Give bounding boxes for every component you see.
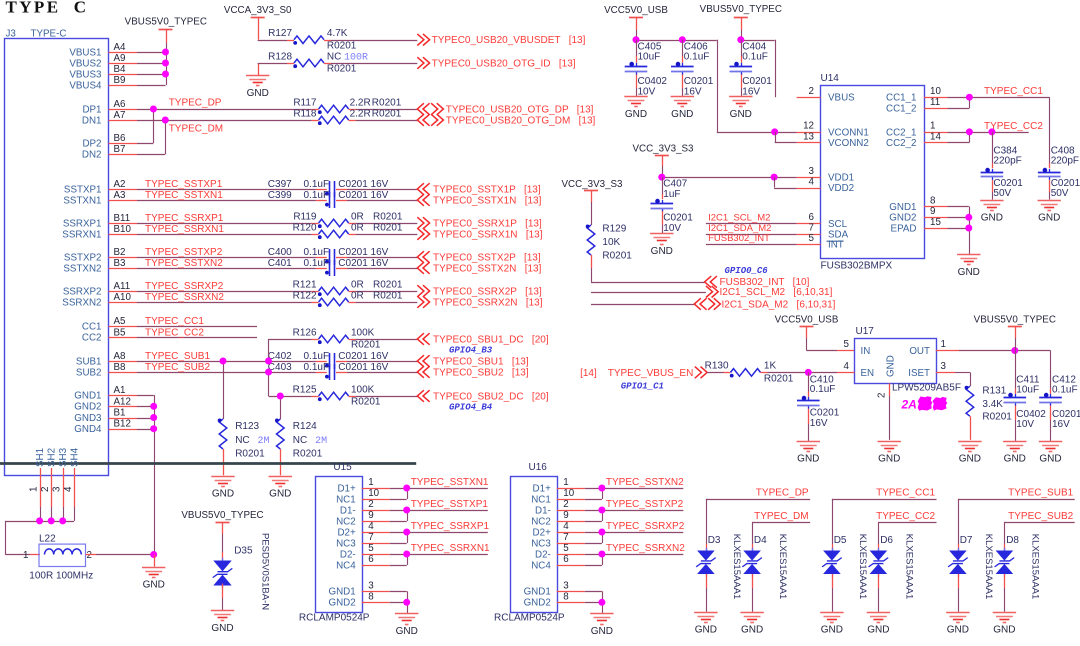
- svg-text:NC2: NC2: [531, 516, 551, 527]
- ground GND for C411: [1003, 441, 1026, 443]
- wire D35 to GND: [222, 584, 224, 599]
- resistor R123 NC 2M: [219, 419, 227, 449]
- svg-text:R124: R124: [293, 421, 317, 432]
- junction SUB1/R126: [265, 358, 272, 365]
- junction SH1: [36, 517, 43, 524]
- capacitor C403 0.1uF: [329, 364, 331, 380]
- junction VBUS2: [162, 60, 169, 67]
- svg-text:0.1uF: 0.1uF: [684, 52, 710, 63]
- wire I2C1_SCL_M2 net: [591, 292, 706, 294]
- wire VCCA_3V3_S0 to R127: [258, 17, 260, 40]
- svg-text:TYPEC0_SBU1_DC [20]: TYPEC0_SBU1_DC [20]: [433, 334, 549, 345]
- svg-text:0R: 0R: [351, 279, 364, 290]
- junction GND3: [150, 414, 157, 421]
- capacitor C410 0.1uF: [808, 372, 810, 391]
- svg-text:R122: R122: [293, 290, 317, 301]
- svg-text:0.1uF: 0.1uF: [1052, 385, 1078, 396]
- svg-text:100K: 100K: [351, 327, 375, 338]
- svg-text:R0201: R0201: [373, 279, 403, 290]
- resistor R124 NC 2M: [277, 419, 285, 449]
- svg-text:DN1: DN1: [82, 115, 102, 126]
- wire TYPEC_CC2 net: [137, 337, 257, 339]
- svg-text:TYPEC_CC2: TYPEC_CC2: [145, 328, 204, 339]
- svg-text:R125: R125: [293, 384, 317, 395]
- svg-text:GND: GND: [212, 489, 234, 500]
- svg-text:2M: 2M: [258, 436, 270, 447]
- svg-text:RCLAMP0524P: RCLAMP0524P: [494, 612, 565, 623]
- junction VBUS3: [162, 71, 169, 78]
- svg-text:GPIO0_C6: GPIO0_C6: [725, 266, 769, 276]
- svg-text:KLXES15AAA1: KLXES15AAA1: [731, 534, 742, 600]
- wire D6 to GND: [878, 574, 880, 588]
- svg-text:VBUS5V0_TYPEC: VBUS5V0_TYPEC: [181, 510, 263, 521]
- junction SH3: [59, 517, 66, 524]
- junction CC2 b: [988, 128, 995, 135]
- svg-text:GND3: GND3: [74, 413, 102, 424]
- wire DN2 branch: [137, 154, 165, 156]
- svg-text:TYPEC_SSRXN1: TYPEC_SSRXN1: [411, 543, 490, 554]
- svg-text:R118: R118: [293, 109, 317, 120]
- offpage TYPEC0_SSRX1P: [417, 217, 429, 229]
- svg-text:KLXES15AAA1: KLXES15AAA1: [1029, 534, 1040, 600]
- svg-text:GND: GND: [821, 625, 843, 636]
- svg-text:D1+: D1+: [533, 483, 552, 494]
- svg-text:GND: GND: [269, 489, 291, 500]
- svg-text:R0201: R0201: [351, 397, 381, 408]
- svg-text:0R: 0R: [351, 211, 364, 222]
- svg-text:A2: A2: [114, 179, 126, 190]
- offpage TYPEC0_SSRX2N: [417, 296, 429, 308]
- ground GND for D5: [820, 612, 843, 614]
- svg-text:R0201: R0201: [373, 211, 403, 222]
- svg-text:SCL: SCL: [828, 219, 848, 230]
- svg-text:C0201: C0201: [810, 408, 840, 419]
- wire TYPEC_CC2 from U14: [948, 132, 1029, 134]
- svg-text:1: 1: [941, 339, 946, 350]
- svg-text:A11: A11: [114, 281, 131, 292]
- svg-text:NC4: NC4: [531, 560, 551, 571]
- svg-text:GND: GND: [730, 109, 752, 120]
- svg-text:C0201: C0201: [684, 76, 714, 87]
- svg-text:TYPEC_CC1: TYPEC_CC1: [876, 488, 935, 499]
- svg-text:GND: GND: [396, 626, 418, 637]
- svg-text:C401: C401: [268, 258, 292, 269]
- svg-text:D1+: D1+: [337, 483, 356, 494]
- svg-text:TYPEC_SSTXP1: TYPEC_SSTXP1: [145, 179, 223, 190]
- U16 wire pair 554: [585, 554, 602, 556]
- svg-text:SH4: SH4: [69, 447, 80, 467]
- junction GND2: [150, 403, 157, 410]
- wire D8 to GND: [1004, 574, 1006, 588]
- junction GND4: [150, 425, 157, 432]
- svg-text:R117: R117: [293, 97, 317, 108]
- capacitor C411 10uF: [1015, 351, 1017, 389]
- svg-text:SUB1: SUB1: [76, 356, 102, 367]
- svg-text:GND2: GND2: [524, 598, 551, 609]
- wire to L22: [5, 554, 30, 556]
- svg-text:R131: R131: [982, 385, 1006, 396]
- svg-text:R0201: R0201: [373, 222, 403, 233]
- svg-text:RCLAMP0524P: RCLAMP0524P: [299, 612, 370, 623]
- svg-text:D35: D35: [234, 546, 253, 557]
- svg-text:2.2R: 2.2R: [350, 109, 371, 120]
- svg-text:10uF: 10uF: [1016, 385, 1039, 396]
- svg-text:PESD5V0S1BA-N: PESD5V0S1BA-N: [259, 533, 270, 610]
- svg-text:16V: 16V: [1052, 419, 1070, 430]
- svg-text:C0201 16V: C0201 16V: [338, 179, 388, 190]
- diode D7 KLXES15AAA1 TVS: [949, 551, 967, 561]
- svg-text:TYPEC_SSRXN2: TYPEC_SSRXN2: [145, 292, 224, 303]
- svg-text:D6: D6: [880, 535, 893, 546]
- svg-text:B11: B11: [114, 213, 131, 224]
- svg-text:3: 3: [52, 486, 63, 492]
- ground GND for C406: [671, 96, 694, 98]
- svg-text:R129: R129: [602, 224, 626, 235]
- svg-text:TYPEC_SUB2: TYPEC_SUB2: [1008, 511, 1073, 522]
- wire D5 to GND: [832, 574, 834, 588]
- svg-text:TYPEC_SSRXP1: TYPEC_SSRXP1: [411, 521, 490, 532]
- svg-text:TYPEC_SSTXN2: TYPEC_SSTXN2: [606, 477, 684, 488]
- svg-text:3: 3: [563, 580, 569, 591]
- wire DP2 branch: [137, 143, 153, 145]
- svg-text:GND: GND: [981, 212, 1003, 223]
- svg-text:CC2: CC2: [82, 333, 102, 344]
- svg-text:VCC_3V3_S3: VCC_3V3_S3: [562, 179, 624, 190]
- junction C410: [805, 369, 812, 376]
- U16 wire pair 532: [585, 532, 602, 534]
- svg-text:D2+: D2+: [533, 527, 552, 538]
- svg-text:2.2R: 2.2R: [350, 97, 371, 108]
- wire VBUS5V0_TYPEC to D35: [222, 523, 224, 535]
- svg-text:10V: 10V: [663, 223, 681, 234]
- diode D5 KLXES15AAA1 TVS: [823, 551, 841, 561]
- svg-text:TYPEC0_SSRX1N [13]: TYPEC0_SSRX1N [13]: [433, 229, 543, 240]
- svg-text:KLXES15AAA1: KLXES15AAA1: [857, 534, 868, 600]
- wire TYPEC_DP net: [137, 109, 312, 111]
- svg-text:D3: D3: [708, 535, 721, 546]
- svg-text:9: 9: [368, 510, 373, 521]
- wire TYPEC_SSRXP1 net: [137, 223, 312, 225]
- svg-text:TYPEC_DM: TYPEC_DM: [754, 511, 808, 522]
- wire R123 branch: [223, 361, 225, 419]
- junction VBUS1: [162, 49, 169, 56]
- offpage TYPEC0_SBU1_DC: [417, 333, 429, 345]
- svg-text:A7: A7: [114, 110, 126, 121]
- svg-text:10: 10: [563, 488, 574, 499]
- svg-text:VBUS5V0_TYPEC: VBUS5V0_TYPEC: [700, 4, 782, 15]
- svg-text:C0201 16V: C0201 16V: [338, 351, 388, 362]
- junction CC2 a: [966, 128, 973, 135]
- svg-text:GND: GND: [591, 626, 613, 637]
- U15 wire pair 510: [390, 510, 407, 512]
- ground GND for D35: [211, 610, 234, 612]
- svg-text:A3: A3: [114, 190, 127, 201]
- wire FUSB302_INT to U14: [706, 244, 797, 246]
- svg-text:TYPEC0_USB20_OTG_ID [13]: TYPEC0_USB20_OTG_ID [13]: [432, 58, 576, 69]
- svg-text:D2-: D2-: [340, 549, 356, 560]
- svg-text:SSTXP1: SSTXP1: [64, 184, 102, 195]
- wire TYPEC_CC2 net at D6: [878, 522, 936, 524]
- svg-text:C0402: C0402: [638, 76, 668, 87]
- junction U14 GND2: [965, 214, 972, 221]
- svg-text:7: 7: [368, 532, 373, 543]
- U15 wire pair 532: [390, 532, 407, 534]
- svg-text:10K: 10K: [602, 237, 620, 248]
- svg-text:D1-: D1-: [535, 505, 551, 516]
- ground GND for C412: [1039, 441, 1062, 443]
- offpage TYPEC0_SSRX1N: [417, 228, 429, 240]
- svg-text:GND: GND: [947, 625, 969, 636]
- svg-text:I2C1_SDA_M2 [6,10,31]: I2C1_SDA_M2 [6,10,31]: [722, 299, 836, 310]
- svg-text:KLXES15AAA1: KLXES15AAA1: [983, 534, 994, 600]
- offpage TYPEC0_SBU2_DC: [417, 390, 429, 402]
- wire TYPEC_CC1 net at D5: [832, 499, 937, 501]
- wire U17 OUT: [936, 350, 959, 352]
- svg-text:0.1uF: 0.1uF: [742, 52, 768, 63]
- svg-text:9: 9: [930, 206, 935, 217]
- U16 wire GND pair: [585, 591, 602, 593]
- svg-text:TYPEC_CC1: TYPEC_CC1: [984, 86, 1043, 97]
- svg-text:R0201: R0201: [372, 97, 402, 108]
- svg-text:TYPEC_SSTXN2: TYPEC_SSTXN2: [145, 258, 223, 269]
- ground GND for C410: [797, 441, 820, 443]
- svg-text:B4: B4: [114, 64, 127, 75]
- capacitor C406 0.1uF: [682, 40, 684, 56]
- wire TYPEC_SUB1 net at D7: [958, 499, 1075, 501]
- svg-text:NC4: NC4: [336, 560, 356, 571]
- junction SUB1/R123: [220, 358, 227, 365]
- svg-text:VCCA_3V3_S0: VCCA_3V3_S0: [224, 5, 292, 16]
- svg-text:2: 2: [563, 499, 568, 510]
- ground GND for D4: [740, 612, 763, 614]
- diode D8 KLXES15AAA1 TVS: [996, 551, 1014, 561]
- wire D4 to GND: [752, 574, 754, 588]
- junction C406: [679, 36, 686, 43]
- svg-text:EN: EN: [861, 368, 875, 379]
- svg-text:0.1uF: 0.1uF: [304, 258, 330, 269]
- svg-text:R121: R121: [293, 279, 317, 290]
- svg-text:C400: C400: [268, 247, 292, 258]
- svg-text:SH2: SH2: [47, 448, 58, 467]
- svg-text:R0201: R0201: [327, 64, 357, 75]
- svg-text:NC1: NC1: [336, 494, 356, 505]
- svg-text:TYPEC0_SSRX1P [13]: TYPEC0_SSRX1P [13]: [433, 218, 542, 229]
- resistor R121 0R: [319, 287, 349, 295]
- svg-text:C399: C399: [268, 190, 292, 201]
- svg-text:8: 8: [930, 195, 936, 206]
- svg-text:CC2_1: CC2_1: [886, 127, 917, 138]
- U14 INT overline: [827, 240, 844, 242]
- svg-text:TYPEC_SSTXP2: TYPEC_SSTXP2: [606, 499, 684, 510]
- svg-text:6: 6: [563, 554, 569, 565]
- diode D6 KLXES15AAA1 TVS: [870, 551, 888, 561]
- capacitor C397 0.1uF: [329, 181, 331, 197]
- svg-text:16V: 16V: [810, 418, 828, 429]
- svg-text:GND1: GND1: [524, 587, 551, 598]
- offpage TYPEC0_USB20_OTG_DP: [417, 103, 429, 115]
- wire shield bus: [5, 521, 74, 523]
- svg-text:R0201: R0201: [327, 40, 357, 51]
- svg-text:10V: 10V: [1016, 419, 1034, 430]
- svg-text:CC1: CC1: [82, 321, 102, 332]
- svg-text:VCC5V0_USB: VCC5V0_USB: [604, 5, 668, 16]
- svg-text:2A: 2A: [901, 398, 917, 412]
- svg-text:11: 11: [930, 97, 940, 108]
- svg-text:C0201: C0201: [742, 76, 772, 87]
- wire GND to R128: [258, 63, 260, 75]
- svg-text:TYPEC0_SSTX1P [13]: TYPEC0_SSTX1P [13]: [433, 184, 541, 195]
- svg-text:6: 6: [368, 554, 374, 565]
- wire VBUS pins to rail: [137, 52, 166, 54]
- svg-text:GND: GND: [211, 623, 233, 634]
- svg-text:U14: U14: [821, 73, 840, 84]
- svg-text:2M: 2M: [315, 436, 327, 447]
- offpage I2C1_SCL_M2: [706, 286, 718, 298]
- wire TYPEC_CC1 net: [137, 326, 257, 328]
- svg-text:VBUS1: VBUS1: [69, 47, 101, 58]
- svg-text:10: 10: [368, 488, 379, 499]
- svg-text:0R: 0R: [351, 290, 364, 301]
- svg-text:GND: GND: [993, 625, 1015, 636]
- wire D3 to GND: [706, 574, 708, 588]
- resistor R120 0R: [319, 230, 349, 238]
- svg-text:GND: GND: [695, 625, 717, 636]
- svg-text:50V: 50V: [993, 188, 1011, 199]
- svg-text:C0201 16V: C0201 16V: [338, 247, 388, 258]
- svg-text:B1: B1: [114, 408, 126, 419]
- svg-text:B6: B6: [114, 133, 127, 144]
- svg-text:VBUS5V0_TYPEC: VBUS5V0_TYPEC: [974, 315, 1056, 326]
- svg-text:VBUS: VBUS: [828, 93, 855, 104]
- inductor L22 100R 100MHz: [39, 544, 86, 566]
- svg-text:C397: C397: [268, 179, 292, 190]
- svg-text:R128: R128: [268, 51, 292, 62]
- svg-text:LPW5209AB5F: LPW5209AB5F: [892, 383, 961, 394]
- svg-text:5: 5: [809, 233, 815, 244]
- svg-text:2: 2: [40, 487, 51, 492]
- svg-text:VCONN1: VCONN1: [828, 127, 869, 138]
- svg-text:CC1_1: CC1_1: [886, 93, 917, 104]
- svg-text:4: 4: [563, 521, 569, 532]
- svg-text:8: 8: [368, 591, 374, 602]
- svg-text:D2+: D2+: [337, 527, 356, 538]
- diode D3 KLXES15AAA1 TVS: [697, 551, 715, 561]
- offpage TYPEC0_USB20_VBUSDET: [417, 34, 429, 46]
- ground GND for C384: [980, 200, 1003, 202]
- diode D35 PESD5V0S1BA-N TVS: [213, 561, 231, 572]
- svg-text:TYPEC_DM: TYPEC_DM: [169, 124, 223, 135]
- wire VCC5V0_USB to U17 IN: [806, 327, 808, 339]
- svg-text:TYPE C: TYPE C: [6, 0, 89, 17]
- wire TYPEC_SUB1 net: [137, 361, 316, 363]
- svg-text:3: 3: [368, 580, 374, 591]
- resistor R129 10K: [587, 225, 595, 255]
- svg-text:2: 2: [87, 550, 92, 561]
- svg-text:B12: B12: [114, 419, 131, 430]
- wire TYPEC_SSRXP2 net: [137, 291, 312, 293]
- svg-text:1: 1: [28, 487, 39, 492]
- wire TYPEC_VBUS_EN to R130: [707, 372, 723, 374]
- svg-text:GPIO1_C1: GPIO1_C1: [621, 382, 664, 392]
- svg-text:NC: NC: [293, 435, 307, 446]
- capacitor C401 0.1uF: [329, 260, 331, 276]
- svg-text:TYPEC0_SBU1 [13]: TYPEC0_SBU1 [13]: [433, 356, 529, 367]
- svg-text:VCC5V0_USB: VCC5V0_USB: [775, 315, 839, 326]
- junction VDD: [771, 174, 778, 181]
- wire TYPEC_SSTXN1 net: [137, 200, 316, 202]
- svg-text:GPIO4_B4: GPIO4_B4: [449, 403, 493, 413]
- svg-text:TYPEC0_SSRX2P [13]: TYPEC0_SSRX2P [13]: [433, 286, 542, 297]
- svg-text:GND1: GND1: [889, 202, 916, 213]
- svg-text:GND: GND: [886, 355, 897, 377]
- svg-text:TYPEC_SSTXP1: TYPEC_SSTXP1: [411, 499, 489, 510]
- svg-text:100R 100MHz: 100R 100MHz: [29, 571, 93, 582]
- svg-text:1uF: 1uF: [663, 189, 680, 200]
- svg-text:GND: GND: [651, 246, 673, 257]
- svg-text:J3: J3: [6, 28, 17, 39]
- svg-text:0.1uF: 0.1uF: [304, 351, 330, 362]
- IC U14 FUSB302BMPX box: [821, 86, 925, 259]
- IC U16 RCLAMP0524P box: [511, 477, 558, 613]
- svg-text:DP2: DP2: [82, 138, 101, 149]
- svg-text:4: 4: [63, 486, 74, 492]
- svg-text:SSTXP2: SSTXP2: [64, 252, 102, 263]
- svg-text:GND2: GND2: [889, 213, 916, 224]
- resistor R130 1K: [731, 369, 761, 377]
- svg-text:4: 4: [368, 521, 374, 532]
- offpage I2C1_SDA_M2: [694, 298, 706, 310]
- svg-text:R0201: R0201: [764, 374, 794, 385]
- svg-text:NC3: NC3: [531, 538, 551, 549]
- capacitor C384 220pF: [992, 132, 994, 163]
- svg-text:SUB2: SUB2: [76, 367, 102, 378]
- ground GND for J3 shell: [142, 567, 165, 569]
- svg-text:GND: GND: [625, 109, 647, 120]
- svg-text:R0201: R0201: [982, 412, 1012, 423]
- svg-text:DP1: DP1: [82, 104, 101, 115]
- junction OUT/VBUS5V0: [1011, 347, 1018, 354]
- svg-text:KLXES15AAA1: KLXES15AAA1: [777, 534, 788, 600]
- junction C407: [658, 174, 665, 181]
- svg-text:D2-: D2-: [535, 549, 551, 560]
- svg-text:GND: GND: [878, 454, 900, 465]
- svg-text:EPAD: EPAD: [891, 223, 917, 234]
- wire TYPEC_SSTXN2 net: [137, 268, 316, 270]
- svg-text:0.1uF: 0.1uF: [304, 362, 330, 373]
- wire R125 branch: [268, 372, 270, 396]
- wire VCC_3V3_S3 to VDD: [662, 155, 664, 166]
- svg-text:A1: A1: [114, 385, 126, 396]
- svg-text:3.4K: 3.4K: [982, 399, 1003, 410]
- U15 wire GND pair: [390, 591, 407, 593]
- offpage TYPEC0_SSTX1N: [417, 194, 429, 206]
- svg-text:R123: R123: [235, 421, 259, 432]
- svg-text:C0201 16V: C0201 16V: [338, 190, 388, 201]
- svg-text:2: 2: [877, 393, 888, 398]
- svg-text:GND: GND: [1004, 454, 1026, 465]
- svg-text:TYPEC_CC1: TYPEC_CC1: [145, 316, 204, 327]
- svg-text:L22: L22: [39, 534, 56, 545]
- svg-text:VBUS2: VBUS2: [69, 58, 101, 69]
- svg-text:GND: GND: [1039, 454, 1061, 465]
- svg-text:VBUS3: VBUS3: [69, 69, 102, 80]
- svg-text:B8: B8: [114, 362, 127, 373]
- svg-text:9: 9: [563, 510, 568, 521]
- svg-text:I2C1_SCL_M2: I2C1_SCL_M2: [708, 212, 770, 223]
- svg-text:GND1: GND1: [328, 587, 355, 598]
- svg-text:TYPEC_CC2: TYPEC_CC2: [984, 121, 1043, 132]
- svg-text:ISET: ISET: [908, 368, 930, 379]
